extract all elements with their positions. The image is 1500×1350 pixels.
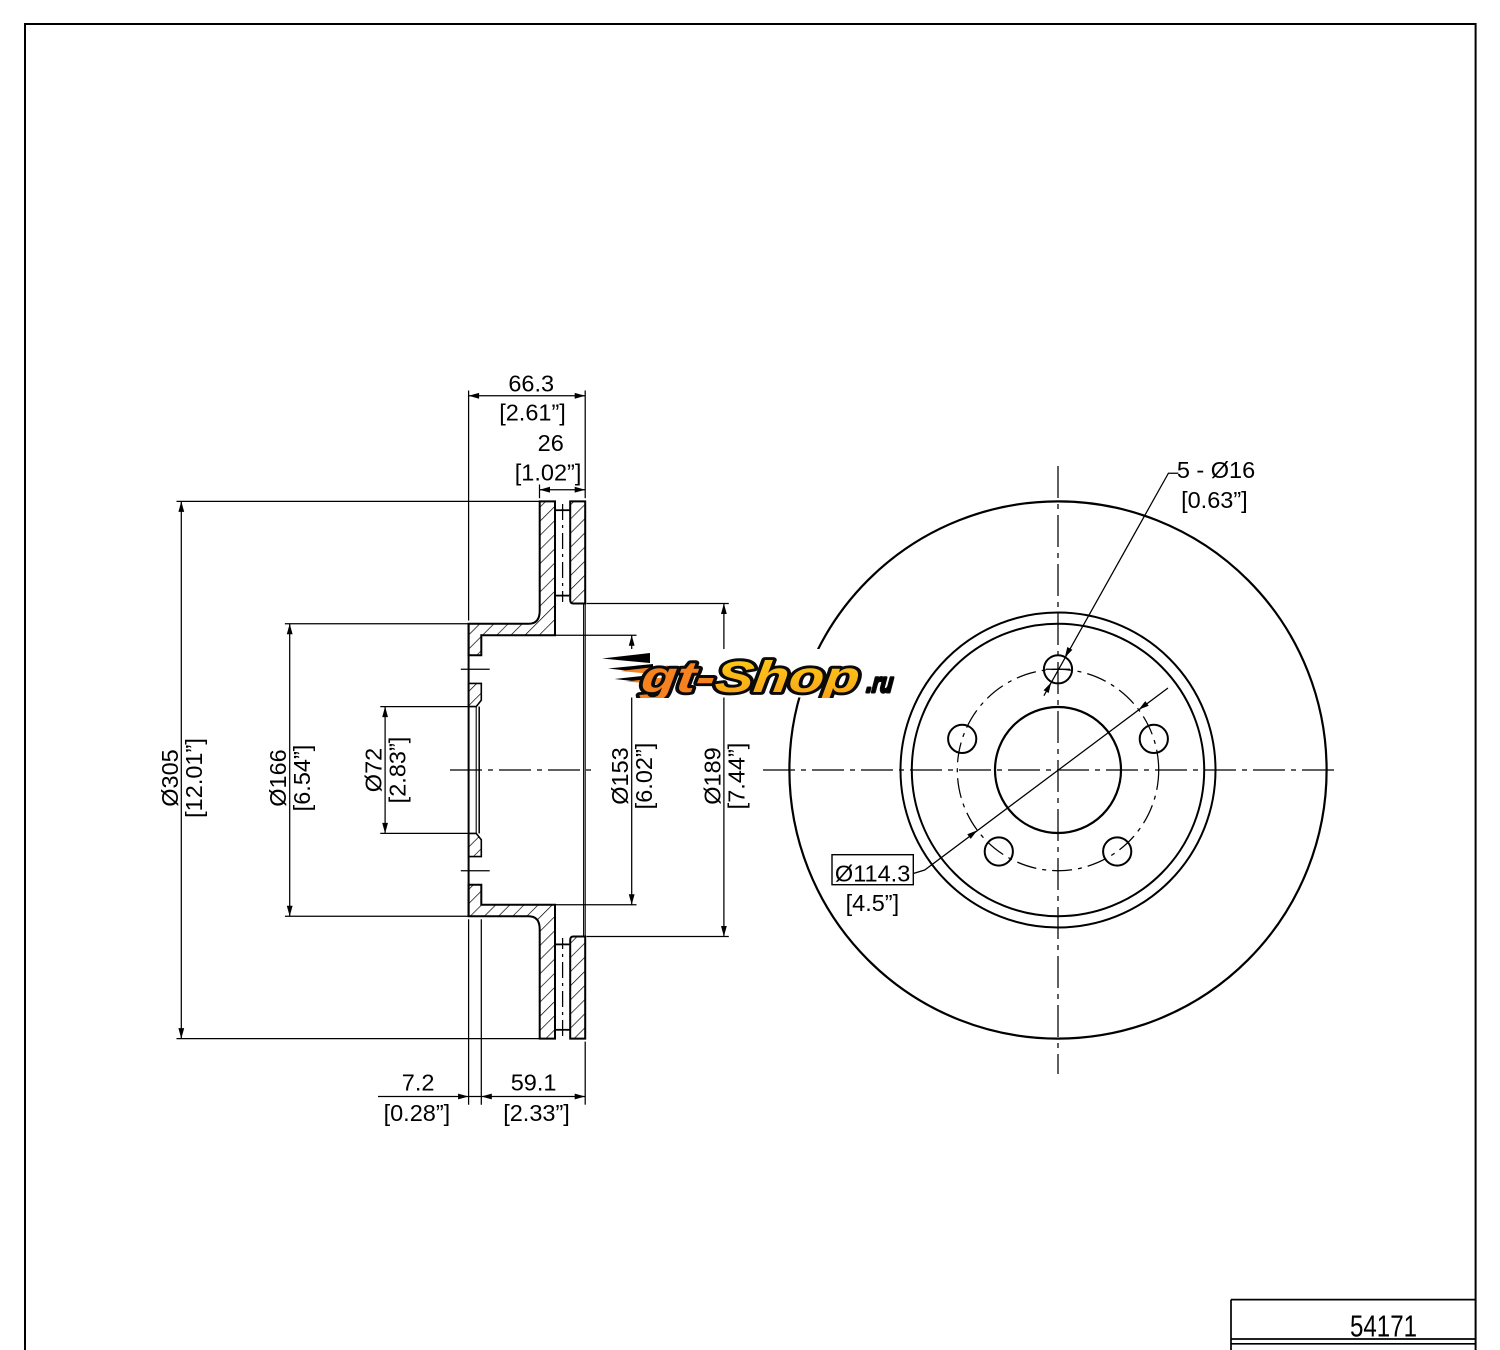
extension lines <box>177 391 729 1105</box>
front view : outer diameter circle <box>789 501 1326 1038</box>
svg-text:7.2: 7.2 <box>402 1069 435 1095</box>
dimension arrowheads <box>178 501 184 512</box>
svg-text:[0.63”]: [0.63”] <box>1181 487 1248 513</box>
centre bore circle <box>995 707 1121 833</box>
inboard face relief lines <box>583 604 585 936</box>
five stud holes <box>1044 655 1072 683</box>
svg-text:Ø153: Ø153 <box>607 747 633 805</box>
svg-text:26: 26 <box>538 430 564 456</box>
svg-text:gt-Shop: gt-Shop <box>638 652 863 701</box>
svg-text:.ru: .ru <box>865 668 895 698</box>
svg-text:Ø305: Ø305 <box>157 749 183 807</box>
stud hole centre ticks <box>461 668 490 670</box>
friction band inner edge circle <box>901 613 1216 928</box>
svg-text:66.3: 66.3 <box>508 371 554 397</box>
svg-text:[6.54”]: [6.54”] <box>289 745 315 812</box>
dimension lines <box>181 396 724 1097</box>
wall segment below bore <box>469 833 482 856</box>
bolt circle centreline <box>957 669 1158 870</box>
svg-text:Ø166: Ø166 <box>265 749 291 807</box>
vent vane edges <box>555 509 570 511</box>
svg-text:[2.61”]: [2.61”] <box>499 400 566 426</box>
svg-text:[2.33”]: [2.33”] <box>503 1100 570 1126</box>
svg-text:[4.5”]: [4.5”] <box>846 890 900 916</box>
svg-text:[7.44”]: [7.44”] <box>723 743 749 810</box>
vent channel centrelines <box>562 504 564 602</box>
svg-text:5 - Ø16: 5 - Ø16 <box>1177 457 1255 483</box>
main horizontal centreline <box>450 769 597 771</box>
top stud hole tick <box>1046 668 1070 670</box>
wall segment between stud hole and bore (top) <box>469 683 482 706</box>
svg-text:59.1: 59.1 <box>511 1069 557 1095</box>
svg-text:[12.01”]: [12.01”] <box>181 738 207 818</box>
title block <box>1231 1300 1476 1350</box>
brake disc section : left plate + hat band + wall (top) <box>469 501 555 655</box>
left plate + hat band (bottom mirror) <box>469 885 555 1039</box>
bolt circle diameter dimension <box>913 688 1168 874</box>
svg-text:[0.28”]: [0.28”] <box>384 1100 451 1126</box>
svg-text:[2.83”]: [2.83”] <box>385 737 411 804</box>
right friction plate (bottom) <box>570 937 585 1039</box>
gt-shop.ru watermark logo <box>600 649 896 701</box>
svg-text:Ø114.3: Ø114.3 <box>835 860 910 886</box>
vertical centreline <box>1057 466 1059 1074</box>
svg-text:Ø189: Ø189 <box>699 747 725 805</box>
svg-text:54171: 54171 <box>1350 1309 1417 1344</box>
bore chamfer lines <box>475 707 477 834</box>
svg-text:Ø72: Ø72 <box>361 748 387 792</box>
right friction plate (top) <box>570 501 585 603</box>
svg-text:[1.02”]: [1.02”] <box>515 459 582 485</box>
svg-text:[6.02”]: [6.02”] <box>631 743 657 810</box>
hat outer circle <box>912 624 1204 916</box>
hat flange left face <box>468 624 470 916</box>
stud hole count/size leader <box>1044 473 1179 696</box>
